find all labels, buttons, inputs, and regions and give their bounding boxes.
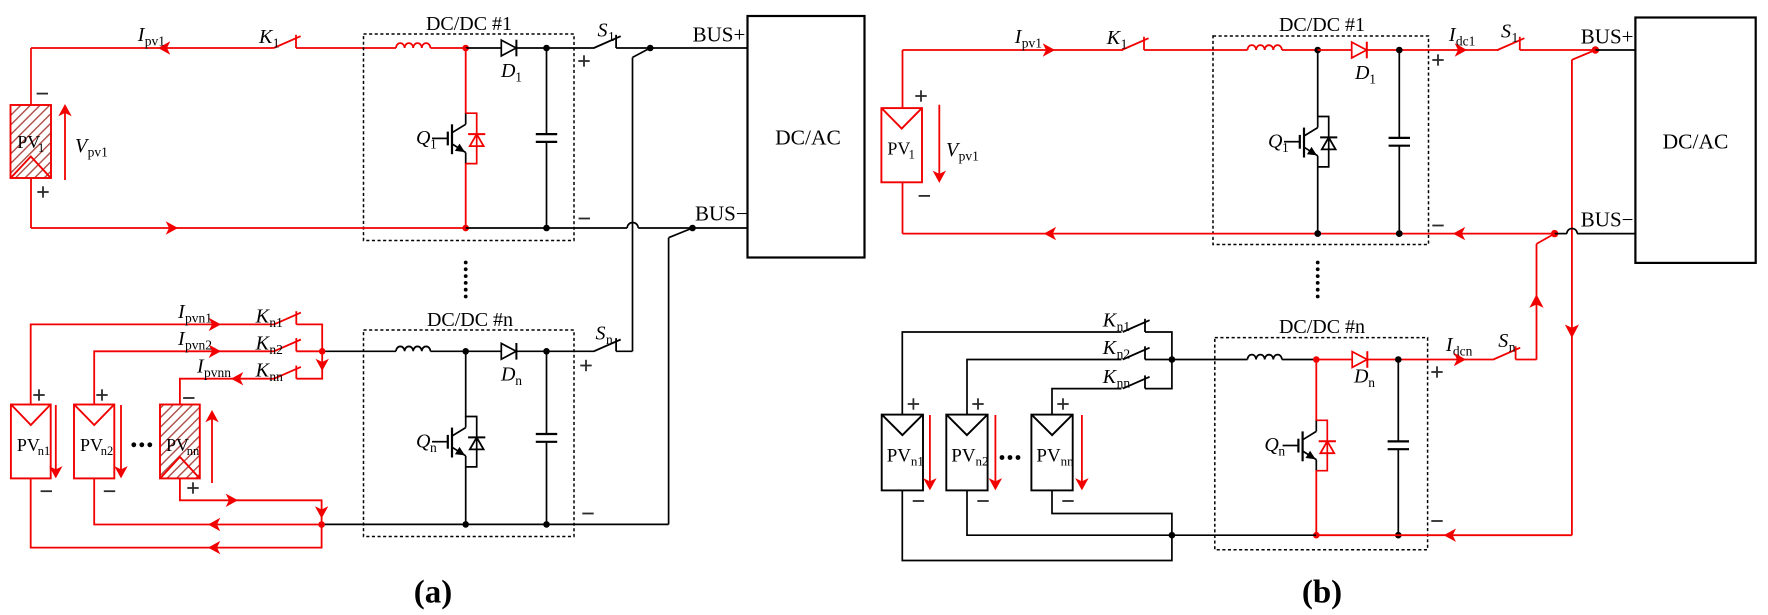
svg-text:n1: n1 xyxy=(1117,319,1131,334)
svg-text:pv1: pv1 xyxy=(959,149,979,164)
svg-text:n2: n2 xyxy=(976,454,989,469)
svg-text:BUS−: BUS− xyxy=(1581,208,1634,232)
svg-text:D: D xyxy=(500,364,516,386)
svg-text:PV: PV xyxy=(1036,446,1061,467)
svg-text:pvn1: pvn1 xyxy=(185,310,212,325)
svg-text:pvn2: pvn2 xyxy=(185,338,212,353)
svg-text:PV: PV xyxy=(887,446,912,467)
svg-text:n: n xyxy=(1509,340,1516,355)
svg-text:K: K xyxy=(255,305,271,327)
svg-text:(a): (a) xyxy=(414,575,452,611)
svg-text:nn: nn xyxy=(1117,376,1131,391)
svg-text:PV: PV xyxy=(166,435,189,455)
svg-text:Q: Q xyxy=(1264,434,1279,456)
svg-text:n: n xyxy=(1278,444,1285,459)
svg-text:K: K xyxy=(255,333,271,355)
svg-text:PV: PV xyxy=(17,435,40,455)
svg-text:PV: PV xyxy=(17,132,40,152)
svg-text:pv1: pv1 xyxy=(145,34,165,49)
svg-text:PV: PV xyxy=(887,138,910,158)
svg-text:DC/DC #1: DC/DC #1 xyxy=(426,13,512,35)
svg-text:n: n xyxy=(606,332,613,347)
svg-text:1: 1 xyxy=(430,137,437,152)
svg-text:1: 1 xyxy=(1121,37,1128,52)
svg-text:nn: nn xyxy=(1061,454,1075,469)
svg-text:D: D xyxy=(500,60,516,82)
svg-text:DC/AC: DC/AC xyxy=(1663,129,1729,153)
svg-text:BUS+: BUS+ xyxy=(693,22,746,46)
svg-text:DC/AC: DC/AC xyxy=(775,126,841,150)
svg-text:K: K xyxy=(255,360,271,382)
svg-text:DC/DC #n: DC/DC #n xyxy=(1279,316,1365,338)
svg-text:pv1: pv1 xyxy=(1022,36,1042,51)
svg-text:K: K xyxy=(258,26,274,48)
svg-text:n2: n2 xyxy=(1117,347,1131,362)
svg-text:S: S xyxy=(1501,21,1511,43)
svg-text:Q: Q xyxy=(416,431,431,453)
svg-text:D: D xyxy=(1354,62,1370,84)
svg-text:PV: PV xyxy=(80,435,103,455)
svg-text:1: 1 xyxy=(515,70,522,85)
svg-text:(b): (b) xyxy=(1302,575,1342,611)
svg-text:BUS−: BUS− xyxy=(695,202,748,226)
svg-text:S: S xyxy=(596,323,606,345)
svg-text:n1: n1 xyxy=(38,444,51,458)
svg-text:Q: Q xyxy=(416,127,431,149)
svg-text:1: 1 xyxy=(1512,30,1519,45)
svg-text:K: K xyxy=(1102,366,1118,388)
svg-text:pvnn: pvnn xyxy=(204,365,231,380)
svg-text:n: n xyxy=(1368,375,1375,390)
svg-text:n1: n1 xyxy=(911,454,924,469)
svg-text:DC/DC #1: DC/DC #1 xyxy=(1279,14,1365,36)
svg-text:n2: n2 xyxy=(101,444,114,458)
svg-text:1: 1 xyxy=(273,36,280,51)
svg-text:D: D xyxy=(1353,366,1369,388)
svg-text:1: 1 xyxy=(1282,140,1289,155)
svg-text:PV: PV xyxy=(951,446,976,467)
svg-text:n: n xyxy=(515,373,522,388)
svg-text:S: S xyxy=(1498,330,1508,352)
svg-text:1: 1 xyxy=(608,29,615,44)
svg-text:nn: nn xyxy=(269,369,283,384)
svg-text:K: K xyxy=(1102,310,1118,332)
svg-text:n: n xyxy=(430,440,437,455)
svg-text:DC/DC #n: DC/DC #n xyxy=(427,309,513,331)
svg-text:Q: Q xyxy=(1268,130,1283,152)
svg-text:n2: n2 xyxy=(269,342,283,357)
svg-text:nn: nn xyxy=(187,444,200,458)
svg-text:1: 1 xyxy=(1369,72,1376,87)
svg-text:BUS+: BUS+ xyxy=(1581,25,1634,49)
svg-text:S: S xyxy=(598,19,608,41)
svg-text:K: K xyxy=(1106,27,1122,49)
svg-text:pv1: pv1 xyxy=(88,145,108,160)
svg-text:K: K xyxy=(1102,337,1118,359)
svg-text:1: 1 xyxy=(38,141,44,155)
svg-text:n1: n1 xyxy=(269,315,283,330)
svg-text:1: 1 xyxy=(909,147,915,161)
